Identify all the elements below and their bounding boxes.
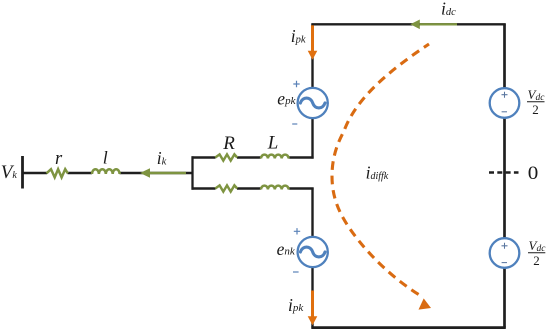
svg-text:0: 0 [528,163,539,184]
svg-text:r: r [55,149,63,169]
svg-text:L: L [267,133,279,154]
svg-text:2: 2 [533,253,540,268]
svg-text:R: R [222,133,235,154]
svg-text:2: 2 [532,102,539,117]
svg-text:l: l [103,148,108,168]
